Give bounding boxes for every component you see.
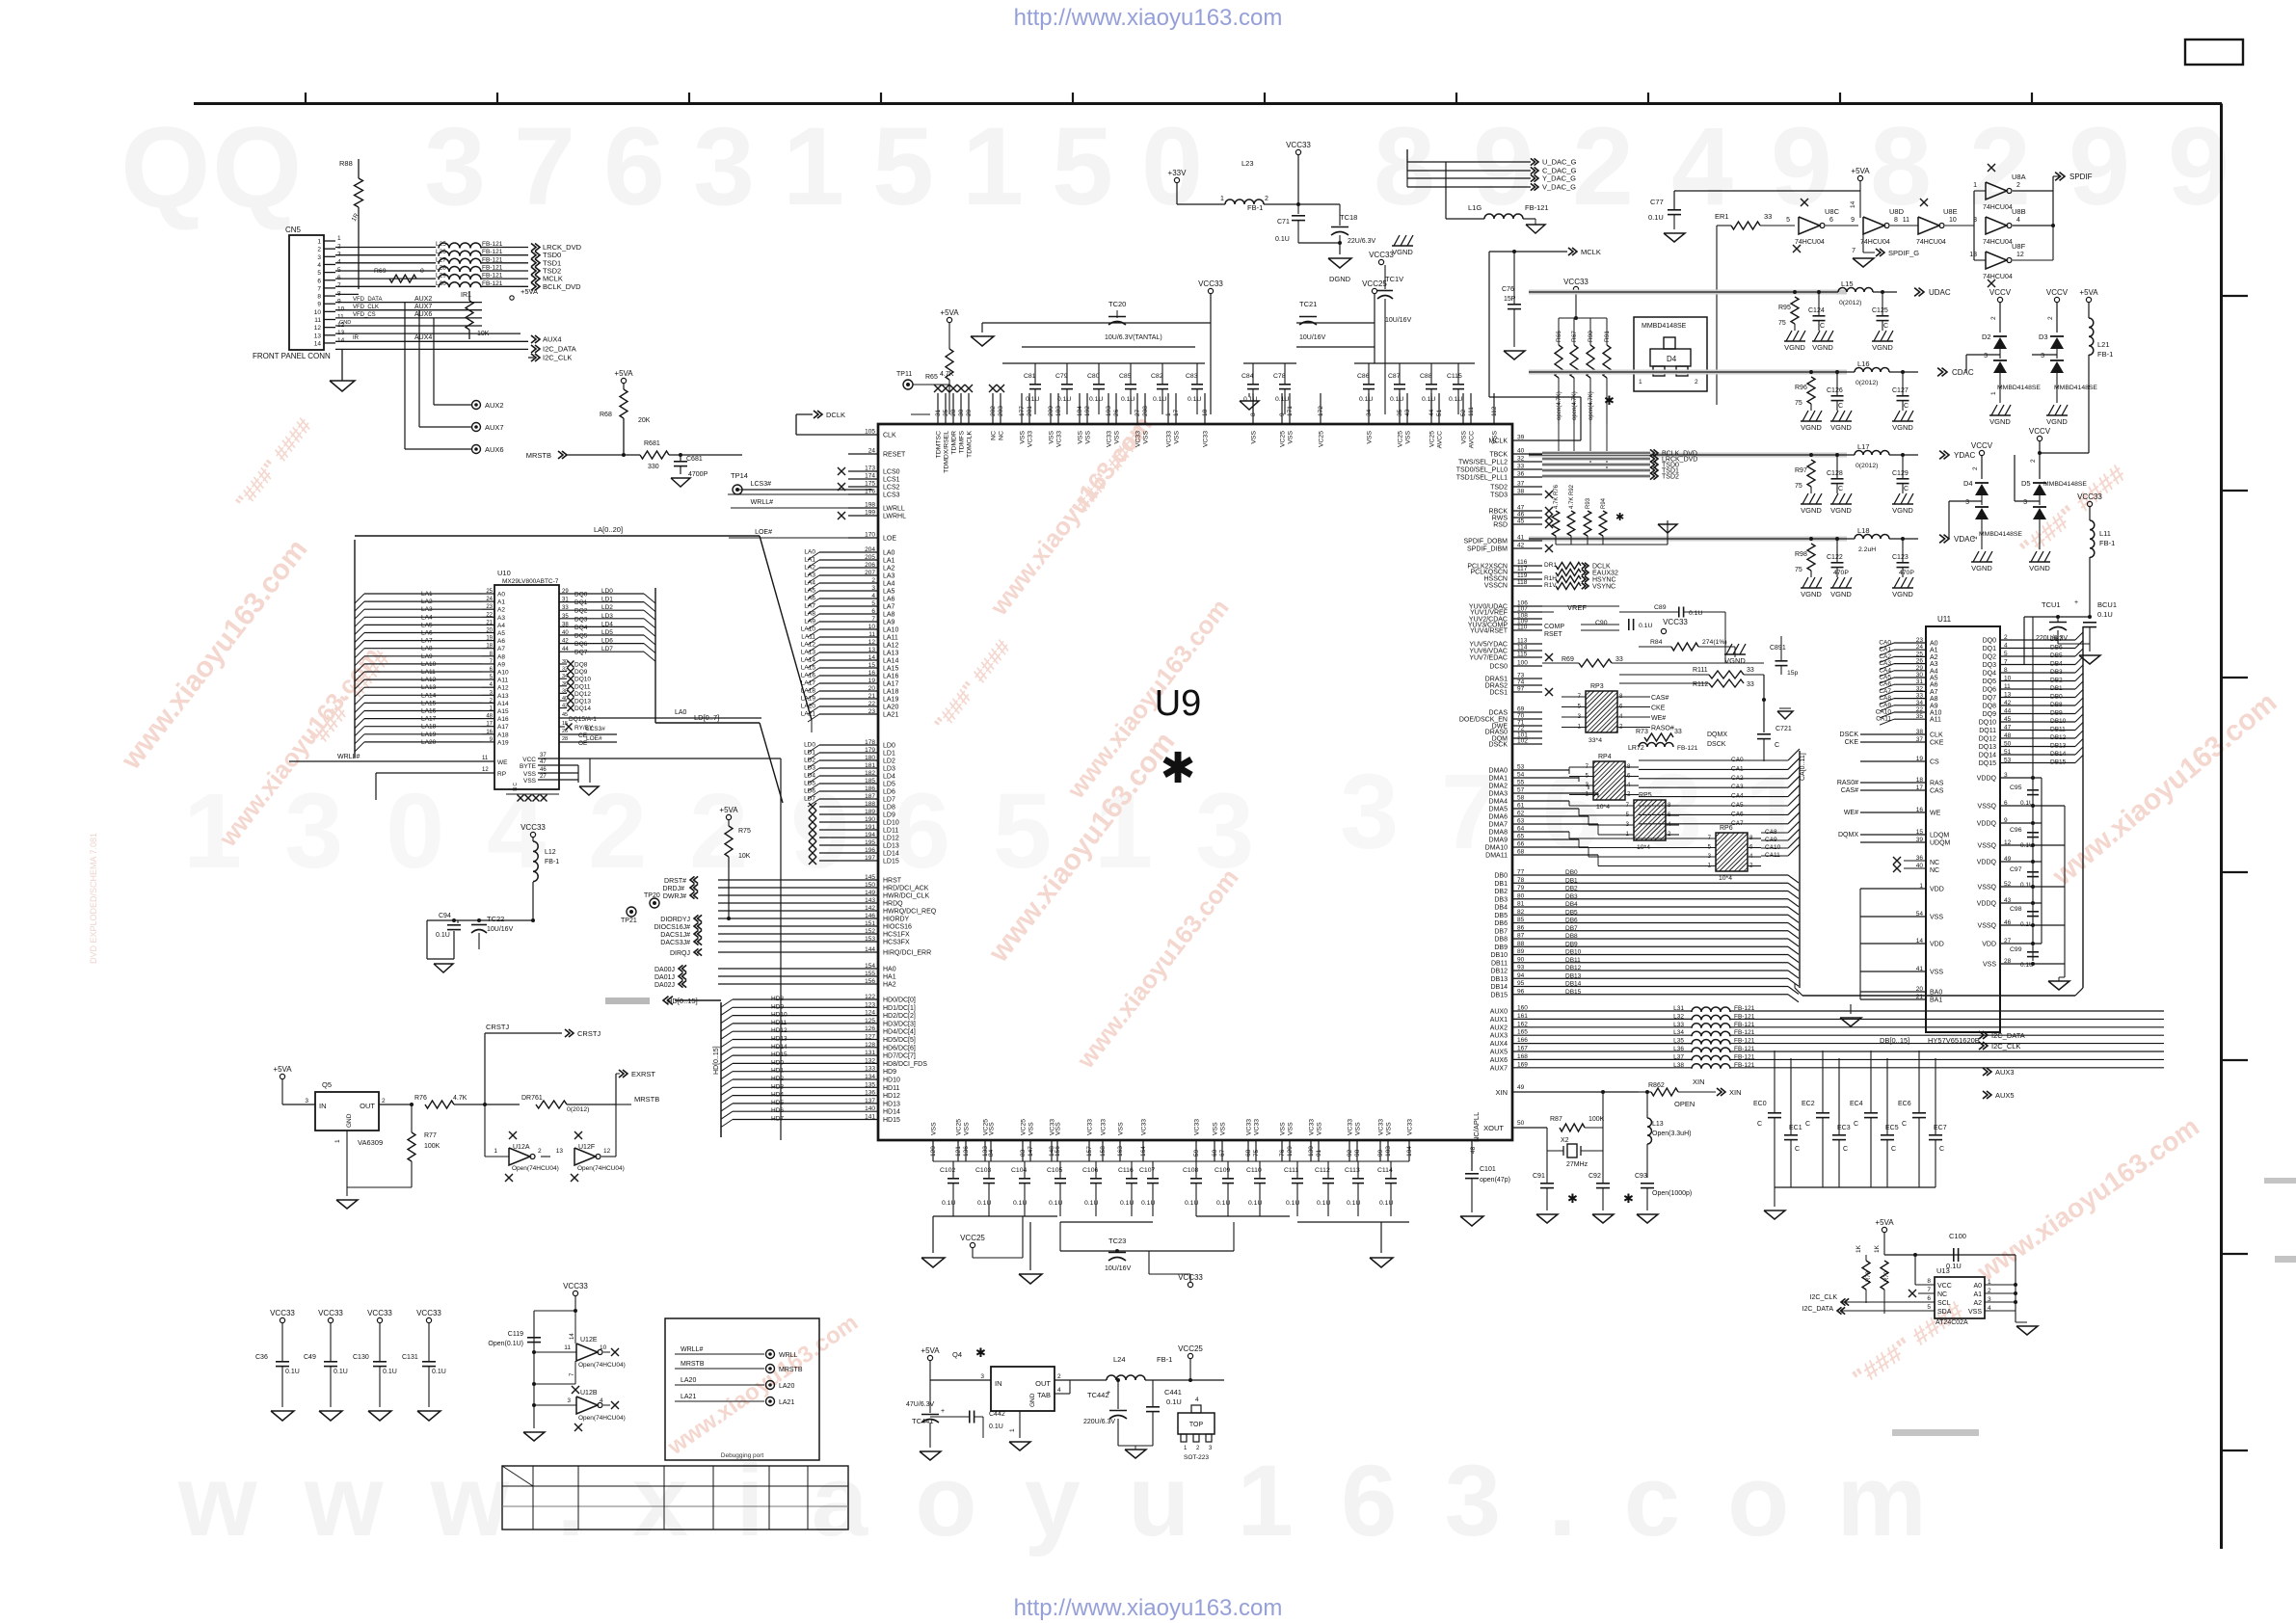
svg-text:DCS0: DCS0 <box>1489 664 1508 671</box>
svg-text:HA1: HA1 <box>883 974 896 981</box>
svg-text:87: 87 <box>1517 933 1525 940</box>
svg-text:143: 143 <box>865 897 875 904</box>
svg-text:0.1U: 0.1U <box>1166 1397 1182 1406</box>
resistor pack RP6 10*4 <box>1716 833 1748 871</box>
svg-text:C88: C88 <box>1420 373 1432 380</box>
svg-text:DRAS2: DRAS2 <box>1485 683 1508 690</box>
svg-text:DB7: DB7 <box>1565 925 1578 932</box>
svg-text:1: 1 <box>1220 196 1224 202</box>
svg-text:I2C_CLK: I2C_CLK <box>1991 1042 2020 1051</box>
svg-text:136: 136 <box>963 1146 970 1157</box>
svg-text:VSS: VSS <box>1461 431 1468 444</box>
svg-text:CS: CS <box>1930 759 1939 766</box>
svg-text:206: 206 <box>865 562 875 569</box>
power +33V <box>1174 177 1179 182</box>
svg-text:LA1: LA1 <box>883 558 895 565</box>
svg-text:EXRST: EXRST <box>631 1070 655 1078</box>
svg-text:VSSCN: VSSCN <box>1484 583 1508 590</box>
svg-text:2: 2 <box>2016 182 2020 189</box>
svg-text:14: 14 <box>570 1333 575 1340</box>
svg-text:VSS: VSS <box>1251 431 1258 444</box>
svg-text:33*4: 33*4 <box>1589 737 1602 744</box>
svg-text:274(1%): 274(1%) <box>1702 639 1727 646</box>
svg-text:D4: D4 <box>1667 355 1677 363</box>
svg-text:2: 2 <box>2004 634 2008 641</box>
capacitor C721 <box>1763 675 1765 732</box>
svg-text:FB-121: FB-121 <box>1677 745 1698 752</box>
svg-text:C124: C124 <box>1808 307 1825 314</box>
svg-text:191: 191 <box>865 824 875 831</box>
svg-text:I2C_DATA: I2C_DATA <box>1802 1306 1834 1313</box>
svg-text:HCS1FX: HCS1FX <box>883 932 910 939</box>
filter row L15 UDAC <box>1529 291 1838 293</box>
svg-text:HD8/DCI_FDS: HD8/DCI_FDS <box>883 1061 927 1068</box>
svg-text:115: 115 <box>1517 652 1528 658</box>
svg-text:FB-1: FB-1 <box>2099 539 2115 547</box>
inductor L21 FB-1 +5VA <box>2086 297 2091 302</box>
svg-text:CA9: CA9 <box>1879 702 1891 708</box>
svg-text:CA5: CA5 <box>1879 675 1891 681</box>
svg-text:NC/APLL: NC/APLL <box>1472 1112 1481 1142</box>
svg-text:Y_DAC_G: Y_DAC_G <box>1542 174 1576 183</box>
svg-text:LD3: LD3 <box>601 613 613 620</box>
svg-text:470P: 470P <box>1833 570 1849 576</box>
svg-text:CKE: CKE <box>1845 739 1859 746</box>
svg-text:U12F: U12F <box>578 1144 595 1151</box>
svg-text:LA10: LA10 <box>421 661 437 668</box>
svg-text:HD10: HD10 <box>883 1078 900 1084</box>
svg-text:3: 3 <box>693 105 755 228</box>
svg-text:WRLL#: WRLL# <box>337 754 360 760</box>
svg-text:DMA1: DMA1 <box>1489 776 1508 783</box>
svg-text:1: 1 <box>1165 412 1172 416</box>
svg-text:HSYNC: HSYNC <box>1592 577 1616 584</box>
svg-text:TDMDR: TDMDR <box>951 431 958 455</box>
svg-text:AVCC: AVCC <box>1469 431 1476 448</box>
svg-text:1K: 1K <box>1855 1244 1862 1253</box>
svg-text:VGND: VGND <box>1801 590 1822 599</box>
resistor R77 100K <box>408 1132 415 1161</box>
svg-text:125: 125 <box>865 1018 875 1024</box>
revision box top-right <box>2185 40 2243 65</box>
svg-text:U10: U10 <box>497 569 511 577</box>
svg-text:9: 9 <box>2069 105 2130 228</box>
chevrons AUX4 I2C_DATA I2C_CLK <box>535 335 540 343</box>
svg-text:48: 48 <box>2004 732 2012 739</box>
svg-text:TSD2: TSD2 <box>1662 474 1679 481</box>
svg-text:VGND: VGND <box>1872 343 1893 352</box>
svg-text:DQ3: DQ3 <box>1983 662 1997 669</box>
DMA jog wires into resistor packs <box>1568 767 1570 770</box>
U9 top pin stubs and vertical names <box>937 393 939 424</box>
svg-text:0.1U: 0.1U <box>1121 396 1135 403</box>
svg-text:12: 12 <box>868 639 876 646</box>
U11 left pins A0-A11 <box>1894 642 1926 644</box>
svg-text:DB9: DB9 <box>2050 710 2063 717</box>
svg-text:RSD: RSD <box>1493 522 1508 529</box>
svg-text:✱: ✱ <box>1161 745 1196 792</box>
svg-text:WRLL#: WRLL# <box>751 499 773 506</box>
svg-text:DB9: DB9 <box>1565 941 1578 947</box>
svg-text:204: 204 <box>865 546 875 553</box>
svg-text:47: 47 <box>540 759 547 765</box>
svg-text:LA7: LA7 <box>804 603 815 610</box>
U9 right DMA0-11 pins <box>1512 769 1569 771</box>
svg-text:DA02J: DA02J <box>654 982 675 989</box>
svg-text:4: 4 <box>600 1397 603 1404</box>
svg-text:24: 24 <box>486 597 493 602</box>
svg-text:C: C <box>1891 1146 1896 1153</box>
svg-text:180: 180 <box>865 755 875 761</box>
svg-text:3: 3 <box>284 772 343 891</box>
svg-text:HD3/DC[3]: HD3/DC[3] <box>883 1021 916 1027</box>
svg-text:54: 54 <box>1517 772 1525 779</box>
power VCC25 bottom <box>970 1242 974 1247</box>
svg-text:VDDQ: VDDQ <box>1977 821 1997 828</box>
svg-text:LA8: LA8 <box>421 646 433 652</box>
svg-text:CLK: CLK <box>1930 732 1943 739</box>
svg-text:0.1U: 0.1U <box>1026 396 1039 403</box>
svg-text:VSS: VSS <box>1288 431 1295 444</box>
svg-text:0.1U: 0.1U <box>989 1423 1003 1430</box>
svg-text:TC18: TC18 <box>1340 213 1357 222</box>
svg-text:7: 7 <box>1927 1287 1931 1293</box>
svg-text:HD1/DC[1]: HD1/DC[1] <box>883 1005 916 1012</box>
svg-text:DQ10: DQ10 <box>574 677 591 683</box>
svg-text:LA20: LA20 <box>779 1383 794 1390</box>
svg-text:11: 11 <box>482 756 489 761</box>
svg-text:10U/16V: 10U/16V <box>487 926 514 933</box>
svg-text:74HCU04: 74HCU04 <box>1916 239 1946 246</box>
svg-text:124: 124 <box>865 1010 875 1017</box>
svg-text:17: 17 <box>1916 785 1924 791</box>
svg-text:C: C <box>1843 1146 1848 1153</box>
svg-text:DRST#: DRST# <box>664 878 686 885</box>
svg-text:MMBD4148SE: MMBD4148SE <box>2043 481 2087 488</box>
svg-text:DIORDYJ: DIORDYJ <box>660 917 690 923</box>
power +5VA Q5 <box>280 1074 284 1078</box>
svg-text:11: 11 <box>1903 217 1909 224</box>
svg-text:172: 172 <box>1318 406 1324 416</box>
terminal AUX7 <box>472 423 481 432</box>
U9 right DCAS group <box>1512 711 1542 713</box>
svg-text:45: 45 <box>1517 519 1525 525</box>
U11 power pins left <box>1860 888 1926 890</box>
svg-text:DB6: DB6 <box>2050 645 2063 652</box>
svg-text:+5VA: +5VA <box>273 1065 292 1074</box>
svg-text:LA9: LA9 <box>883 620 895 626</box>
chevron DCLK <box>817 411 822 418</box>
inverter U8A 74HCU04 <box>1986 182 2007 200</box>
svg-text:VSSQ: VSSQ <box>1978 885 1997 891</box>
svg-text:3: 3 <box>1965 499 1969 506</box>
inverter U12A Open(74HCU04) <box>509 1148 530 1165</box>
filter row L16 CDAC <box>1529 371 1855 373</box>
inverter U12E Open(74HCU04) <box>576 1344 598 1361</box>
svg-text:R84: R84 <box>1650 639 1663 646</box>
svg-text:VDDQ: VDDQ <box>1977 901 1997 908</box>
svg-text:16: 16 <box>486 730 493 735</box>
svg-text:LD9: LD9 <box>883 812 895 819</box>
svg-text:3: 3 <box>1340 753 1399 871</box>
svg-text:LA2: LA2 <box>883 566 895 572</box>
svg-text:SCL: SCL <box>1937 1300 1951 1307</box>
svg-text:LD8: LD8 <box>883 805 895 811</box>
svg-text:C122: C122 <box>1827 554 1843 561</box>
svg-text:VC25: VC25 <box>1280 431 1287 447</box>
no-connect marks under U10 <box>518 795 524 802</box>
svg-text:VSS: VSS <box>1055 1122 1062 1135</box>
power +5VA top right <box>1857 175 1862 180</box>
svg-text:193: 193 <box>1106 406 1112 416</box>
svg-text:A2: A2 <box>497 607 505 614</box>
svg-text:41: 41 <box>1916 966 1924 972</box>
wires CN5 rows 7-14 <box>335 293 359 295</box>
svg-text:208: 208 <box>1142 406 1149 416</box>
svg-text:21: 21 <box>486 620 493 625</box>
svg-text:26: 26 <box>1113 409 1120 416</box>
svg-text:LA5: LA5 <box>883 589 895 596</box>
svg-text:DQ14: DQ14 <box>574 705 591 712</box>
svg-text:MRSTB: MRSTB <box>681 1361 705 1368</box>
svg-text:R93: R93 <box>1586 497 1591 509</box>
svg-text:TP21: TP21 <box>621 918 637 924</box>
svg-text:LA7: LA7 <box>421 638 433 645</box>
svg-text:130: 130 <box>1308 1146 1315 1157</box>
svg-text:R78: R78 <box>1866 1270 1872 1282</box>
svg-text:DB6: DB6 <box>1494 920 1508 927</box>
svg-text:113: 113 <box>1517 638 1528 645</box>
svg-text:VSS: VSS <box>1355 1122 1362 1135</box>
svg-text:60: 60 <box>1212 1149 1218 1157</box>
svg-text:25: 25 <box>486 589 493 595</box>
svg-text:2: 2 <box>1990 316 1997 320</box>
svg-text:A7: A7 <box>1930 689 1938 696</box>
svg-text:VC33: VC33 <box>1254 1119 1261 1135</box>
svg-text:19: 19 <box>868 678 876 684</box>
svg-text:LA16: LA16 <box>883 674 898 680</box>
svg-text:VSS: VSS <box>1968 1309 1982 1316</box>
svg-text:0.1U: 0.1U <box>1286 1200 1299 1207</box>
svg-text:30: 30 <box>1916 672 1924 678</box>
svg-text:LWRHL: LWRHL <box>883 514 906 520</box>
svg-text:L18: L18 <box>1857 526 1870 535</box>
svg-text:DB0: DB0 <box>2050 694 2063 701</box>
svg-text:AUX4: AUX4 <box>1490 1041 1508 1048</box>
svg-text:LD[0..7]: LD[0..7] <box>694 713 719 722</box>
svg-text:LA15: LA15 <box>421 700 437 706</box>
svg-text:R1V: R1V <box>1544 582 1557 589</box>
svg-text:36: 36 <box>1517 471 1525 478</box>
bus label LA[0..20] <box>355 535 760 537</box>
svg-text:DQ3: DQ3 <box>574 616 588 623</box>
svg-text:DB3: DB3 <box>1494 896 1508 903</box>
svg-text:VGND: VGND <box>1801 423 1822 432</box>
svg-text:DRDJ#: DRDJ# <box>662 886 684 892</box>
svg-text:C98: C98 <box>2010 906 2022 913</box>
svg-text:65: 65 <box>1517 834 1525 840</box>
svg-text:DVD EXPLODED/SCHEMA 7.081: DVD EXPLODED/SCHEMA 7.081 <box>89 833 98 964</box>
svg-text:C76: C76 <box>1502 286 1514 293</box>
svg-text:HWR/DCI_CLK: HWR/DCI_CLK <box>883 893 930 900</box>
svg-text:VSS: VSS <box>523 771 537 778</box>
svg-text:RASO#: RASO# <box>1651 726 1674 732</box>
hatched ground VGND near R111 <box>1724 653 1746 655</box>
svg-text:152: 152 <box>865 928 875 935</box>
svg-text:33: 33 <box>1747 667 1754 674</box>
svg-text:178: 178 <box>865 739 875 746</box>
svg-text:DCS1: DCS1 <box>1489 690 1508 697</box>
svg-text:DB2: DB2 <box>1494 889 1508 895</box>
svg-text:C111: C111 <box>1284 1167 1298 1174</box>
svg-text:0.1U: 0.1U <box>1275 236 1290 243</box>
svg-text:48: 48 <box>1470 1146 1477 1154</box>
svg-text:LA15: LA15 <box>883 666 898 673</box>
svg-text:NC: NC <box>1930 867 1939 874</box>
svg-text:HIOCS16: HIOCS16 <box>883 924 912 931</box>
svg-text:VC33: VC33 <box>1378 1119 1385 1135</box>
svg-text:DB15: DB15 <box>1490 992 1508 998</box>
svg-text:TSD0/SEL_PLL0: TSD0/SEL_PLL0 <box>1456 467 1508 474</box>
svg-text:9: 9 <box>317 302 321 308</box>
svg-text:64: 64 <box>1517 826 1525 833</box>
svg-text:D4: D4 <box>1963 479 1973 488</box>
svg-text:VCC33: VCC33 <box>270 1309 295 1317</box>
svg-text:Open(0.1U): Open(0.1U) <box>488 1341 523 1347</box>
svg-text:U11: U11 <box>1937 615 1952 624</box>
svg-text:DQ10: DQ10 <box>1979 720 1996 727</box>
svg-text:A10: A10 <box>497 670 509 677</box>
svg-text:41: 41 <box>1517 535 1525 542</box>
svg-text:VSS: VSS <box>989 1122 996 1135</box>
svg-text:DB10: DB10 <box>2050 718 2067 725</box>
svg-text:AUX1: AUX1 <box>1490 1017 1508 1024</box>
svg-text:A18: A18 <box>497 732 509 738</box>
svg-text:C80: C80 <box>1087 373 1100 380</box>
svg-text:C49: C49 <box>304 1354 316 1361</box>
U11 right power pins VDDQ VSSQ <box>2000 777 2042 779</box>
svg-text:LA5: LA5 <box>421 622 433 628</box>
svg-text:182: 182 <box>865 770 875 777</box>
svg-text:DB7: DB7 <box>2050 636 2063 643</box>
svg-text:UDQM: UDQM <box>1930 840 1951 847</box>
svg-text:HWRQ/DCI_REQ: HWRQ/DCI_REQ <box>883 909 937 916</box>
svg-text:VDD: VDD <box>1982 942 1996 948</box>
svg-text:28: 28 <box>562 736 568 742</box>
svg-text:85: 85 <box>1517 917 1525 923</box>
svg-text:ER1: ER1 <box>1715 212 1729 221</box>
svg-text:DB8: DB8 <box>1494 937 1508 944</box>
svg-text:DMA10: DMA10 <box>1485 845 1508 852</box>
svg-text:LA15: LA15 <box>801 665 816 672</box>
svg-text:LD1: LD1 <box>883 751 895 758</box>
U9 left pins LA0-LA21 <box>819 551 878 553</box>
svg-text:Open(74HCU04): Open(74HCU04) <box>578 1415 626 1422</box>
svg-text:TC20: TC20 <box>1108 300 1126 308</box>
svg-text:XIN: XIN <box>1729 1088 1742 1097</box>
svg-text:TBCK: TBCK <box>1489 452 1508 459</box>
svg-text:GND: GND <box>339 320 351 326</box>
svg-text:U8F: U8F <box>2012 242 2026 251</box>
capacitor C101 open(47p) <box>1471 1140 1473 1171</box>
svg-text:53: 53 <box>2004 758 2012 764</box>
svg-text:LA18: LA18 <box>883 689 898 696</box>
svg-text:FB-1: FB-1 <box>1247 203 1263 212</box>
svg-text:C128: C128 <box>1827 470 1843 477</box>
bottom rails and grounds <box>933 1160 1409 1162</box>
svg-text:92: 92 <box>1347 1149 1353 1157</box>
svg-text:75: 75 <box>1795 567 1802 573</box>
svg-text:VSSQ: VSSQ <box>1978 843 1997 850</box>
svg-text:77: 77 <box>1517 869 1525 876</box>
svg-text:13: 13 <box>2004 692 2012 699</box>
filter row L18 VDAC <box>1529 538 1855 540</box>
svg-text:0.1U: 0.1U <box>1689 610 1702 617</box>
svg-text:Open(74HCU04): Open(74HCU04) <box>578 1362 626 1369</box>
svg-text:AUX4: AUX4 <box>543 335 562 344</box>
svg-text:LA13: LA13 <box>421 684 437 691</box>
svg-text:HD5/DC[5]: HD5/DC[5] <box>883 1037 916 1044</box>
svg-text:DGND: DGND <box>1329 275 1351 283</box>
svg-text:38: 38 <box>1916 729 1924 735</box>
top decoupling rails <box>911 413 930 415</box>
hatched ground VGND top <box>1392 245 1413 247</box>
svg-text:TP11: TP11 <box>896 371 912 378</box>
svg-text:L12: L12 <box>545 849 556 856</box>
svg-text:46: 46 <box>540 767 547 773</box>
svg-text:LOE: LOE <box>883 536 896 543</box>
svg-text:CAS: CAS <box>1930 788 1944 795</box>
svg-text:50: 50 <box>1517 1120 1525 1127</box>
svg-text:79: 79 <box>1517 885 1525 891</box>
svg-text:BCLK_DVD: BCLK_DVD <box>543 282 581 291</box>
svg-text:201: 201 <box>1027 406 1033 416</box>
svg-text:122: 122 <box>865 994 875 1000</box>
flash memory U10 MX29LV800ABTC-70 <box>494 585 559 789</box>
svg-text:HA2: HA2 <box>883 982 896 989</box>
svg-text:2: 2 <box>1695 379 1698 386</box>
SDRAM U11 HY57V651620B <box>1926 626 2000 1032</box>
svg-text:0.1U: 0.1U <box>2020 962 2034 969</box>
svg-text:1: 1 <box>334 1139 341 1143</box>
svg-text:8: 8 <box>1927 1278 1931 1285</box>
svg-text:98: 98 <box>1354 1149 1361 1157</box>
svg-text:LD5: LD5 <box>804 781 815 787</box>
svg-text:HD0/DC[0]: HD0/DC[0] <box>883 998 916 1004</box>
svg-text:VC33: VC33 <box>1194 1119 1201 1135</box>
svg-text:4: 4 <box>2016 217 2020 224</box>
svg-text:LA19: LA19 <box>801 696 816 703</box>
svg-text:VGND: VGND <box>2046 417 2068 426</box>
svg-text:DSCK: DSCK <box>1840 732 1859 738</box>
svg-text:A0: A0 <box>1930 641 1938 648</box>
svg-text:D2: D2 <box>1982 333 1991 341</box>
svg-text:166: 166 <box>1517 1037 1528 1044</box>
svg-text:C87: C87 <box>1388 373 1401 380</box>
svg-text:GND: GND <box>1029 1393 1036 1407</box>
svg-text:C89: C89 <box>1654 604 1667 611</box>
svg-text:6: 6 <box>2004 800 2008 807</box>
svg-text:197: 197 <box>865 855 875 862</box>
svg-text:0.1U: 0.1U <box>1243 396 1257 403</box>
svg-text:A17: A17 <box>497 724 509 731</box>
svg-text:IN: IN <box>995 1379 1002 1388</box>
svg-text:CKE: CKE <box>1651 705 1666 712</box>
svg-text:AVCC: AVCC <box>1437 431 1444 448</box>
svg-text:DB1: DB1 <box>1565 877 1578 884</box>
svg-text:161: 161 <box>1517 1013 1528 1020</box>
svg-text:VGND: VGND <box>1892 423 1913 432</box>
